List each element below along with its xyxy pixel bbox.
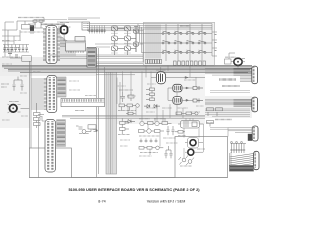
enclosure box bottom-right — [175, 137, 228, 178]
wire comb keypad columns — [146, 25, 160, 59]
scan wash left column — [0, 76, 30, 128]
resistor pair center — [118, 118, 130, 134]
wire U10 output — [151, 67, 205, 78]
IC U4 small box — [75, 37, 85, 42]
transistor grid third column — [134, 29, 139, 52]
buzzer LS2 — [225, 53, 246, 67]
inductor L3 ring — [185, 149, 205, 155]
speaker LS1 ring — [8, 102, 30, 114]
diode D6 — [193, 99, 203, 103]
bus DATA horizontal band — [2, 65, 252, 72]
wire ribbon P2 — [234, 100, 252, 107]
label marks mid-left — [69, 81, 96, 96]
IC U10 — [156, 70, 166, 84]
scan wash keypad — [144, 22, 215, 66]
svg-text:Version with EFJ / SEM: Version with EFJ / SEM — [147, 200, 186, 204]
wire J6 stub top — [38, 115, 45, 122]
label KEYPAD — [180, 25, 190, 27]
filter cluster left — [2, 48, 31, 62]
label FIXED — [222, 85, 240, 87]
capacitor C30 block — [248, 134, 252, 141]
text marks bottom center — [120, 106, 204, 146]
wire ribbon P2 left tail — [205, 100, 250, 117]
connector J3 pins right — [57, 28, 60, 61]
label box K1 — [82, 22, 90, 30]
IC U12 — [173, 97, 182, 105]
small parts field row2 — [139, 119, 172, 126]
wire ribbon P1 — [234, 69, 252, 82]
wire buzzer feed — [229, 55, 238, 67]
crystal Y1 — [58, 23, 71, 42]
transistor Q10 fan — [179, 156, 195, 167]
wire risers to P4 — [230, 152, 232, 165]
connector J3 — [46, 26, 57, 64]
small parts field row4 — [139, 146, 163, 153]
keypad enclosure box — [144, 22, 215, 66]
scan wash center field — [117, 66, 206, 124]
keypad switches S1-S16 — [162, 31, 206, 54]
bus ADDR horizontal band — [62, 115, 205, 118]
enclosure box LCD bottom-left — [29, 148, 71, 178]
label marks center field — [117, 80, 214, 156]
capacitor pair center — [167, 126, 175, 135]
label strip right-mid — [215, 119, 232, 121]
connector J5 pins left — [44, 78, 47, 110]
wire ribbon J5 right — [57, 77, 66, 97]
svg-text:8-74: 8-74 — [98, 200, 105, 204]
enclosure inner line LCD — [38, 118, 40, 178]
diode D8 — [125, 120, 135, 124]
wire keypad feed bundle — [138, 24, 145, 62]
resistor pack RP1 row — [145, 60, 161, 64]
pin numbers strip P1 — [220, 78, 237, 80]
resistor row R20-R27 — [174, 61, 206, 66]
capacitor row bottom-left C3-C9 — [2, 41, 29, 53]
wire top from J3 to K1 — [57, 21, 82, 23]
connector J3 pins left — [43, 28, 46, 61]
IC U5 — [66, 41, 86, 52]
wire top-left extras — [2, 18, 61, 45]
resistor row center low — [175, 112, 198, 133]
bus VBUS vertical gray band — [106, 66, 117, 174]
capacitor trio bottom center — [165, 146, 173, 158]
wire drops center — [117, 72, 183, 121]
resistor network RN2 — [207, 108, 223, 127]
resistor network cluster top-left — [8, 18, 45, 47]
net label strip above J3 — [34, 20, 67, 25]
wire ribbon P3 — [228, 128, 252, 137]
node tick center bus — [93, 130, 98, 132]
scan wash top-left — [0, 57, 96, 76]
keypad bus rows — [87, 24, 212, 31]
connector J5 — [47, 76, 57, 113]
relay cluster K2 — [178, 121, 204, 129]
connector J6 — [45, 120, 56, 173]
wire cluster K2 risers — [184, 118, 204, 158]
capacitor cluster center — [119, 90, 134, 102]
resistor R40 — [146, 88, 155, 101]
inductor L2 ring — [185, 138, 203, 149]
wire ribbon J6 right — [57, 120, 66, 147]
transistor grid Q1-Q6 — [112, 26, 139, 55]
connector X1 strip — [61, 98, 105, 106]
wire ribbon P4 diagonal fan — [230, 154, 254, 171]
svg-text:5100-950 USER INTERFACE BOARD: 5100-950 USER INTERFACE BOARD VER B SCHE… — [68, 187, 200, 192]
capacitor comb C21-C27 — [230, 141, 246, 153]
connector J4 — [87, 48, 96, 68]
scan wash right ribbons — [205, 96, 252, 118]
wire top bus pair — [68, 18, 100, 20]
IC U11 — [173, 84, 182, 92]
wire left edge vertical — [4, 22, 6, 57]
wire P3 tails — [210, 128, 228, 130]
connector P1 — [252, 66, 258, 84]
resistor column R30 left — [34, 103, 41, 128]
label marks under grid — [111, 33, 131, 53]
wire ribbon P1 left tail — [205, 69, 234, 76]
connector P3 — [252, 126, 258, 141]
diode row center — [144, 105, 160, 108]
text marks left column — [2, 64, 41, 120]
connector P4 — [254, 151, 259, 169]
wire J3 right bundle — [60, 36, 75, 56]
connector P2 — [252, 97, 258, 112]
keypad matrix wires — [145, 24, 212, 61]
wire U11 U12 links — [168, 87, 193, 101]
capacitor row C10 comb — [89, 26, 106, 34]
capacitor C2 left — [13, 77, 24, 91]
wire X1 to bus — [104, 67, 106, 98]
wire keypad right stubs — [212, 32, 217, 56]
label NC left — [1, 84, 9, 87]
wire verticals center extra — [128, 66, 196, 155]
wire bus left vertical — [29, 61, 31, 178]
capacitor C1 polarized — [28, 24, 36, 34]
label VR marks left-mid — [75, 110, 84, 112]
wire J5 to left bus — [31, 79, 44, 109]
wire rows below J3 — [50, 55, 143, 75]
wire frame bottom — [29, 177, 227, 179]
small parts field row3 — [139, 129, 165, 143]
wire left edge horiz — [5, 21, 14, 23]
wire under grid — [95, 44, 143, 47]
transistor cluster Q7 — [76, 125, 96, 134]
small parts field row1 — [118, 104, 139, 111]
wire ribbon P4 band — [229, 165, 253, 171]
resistor R52 — [126, 112, 136, 115]
wire bus center vertical — [97, 48, 99, 177]
wire pair right mid — [210, 91, 250, 93]
diode D5 — [193, 86, 203, 90]
